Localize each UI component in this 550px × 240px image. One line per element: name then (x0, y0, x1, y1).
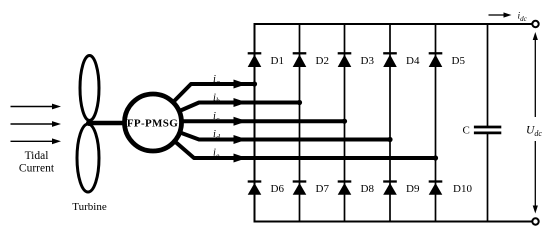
terminal positive (532, 21, 538, 27)
diode D5 (429, 53, 443, 67)
svg-text:Turbine: Turbine (72, 201, 107, 213)
svg-text:D4: D4 (406, 55, 420, 67)
arrowhead phase c (234, 117, 248, 126)
turbine hub (86, 120, 92, 126)
tidal current arrow 3 (11, 138, 62, 144)
diode D10 (429, 182, 443, 195)
diode D9 (383, 182, 397, 195)
arrowhead phase b (234, 98, 248, 107)
label Tidal Current (19, 150, 55, 175)
diode D6 (248, 182, 262, 195)
svg-text:D10: D10 (453, 183, 472, 195)
wire leg 1 (254, 24, 256, 222)
wire phase e (153, 123, 436, 159)
shaft (89, 121, 130, 126)
svg-text:Tidal: Tidal (25, 150, 49, 162)
svg-text:D7: D7 (316, 183, 330, 195)
svg-text:Current: Current (19, 163, 55, 175)
diode D8 (338, 182, 352, 195)
arrowhead phase d (234, 135, 248, 144)
tidal current arrow 2 (11, 121, 62, 127)
diode D7 (293, 182, 307, 195)
node phase d junction (387, 137, 392, 142)
svg-text:D2: D2 (316, 55, 329, 67)
wire phase a (153, 84, 255, 123)
svg-text:D5: D5 (452, 55, 466, 67)
node phase b junction (297, 100, 302, 105)
node phase e junction (433, 155, 438, 160)
wire bottom rail (254, 221, 536, 223)
arrowhead phase a (234, 80, 248, 89)
wire top rail (254, 23, 536, 25)
diode D4 (383, 53, 397, 67)
diode D3 (338, 53, 352, 67)
svg-text:D8: D8 (361, 183, 375, 195)
diode D2 (293, 53, 307, 67)
svg-text:D9: D9 (406, 183, 420, 195)
svg-text:FP-PMSG: FP-PMSG (127, 118, 178, 130)
arrow Udc lower (533, 141, 538, 214)
wire leg 4 (389, 24, 391, 222)
wire leg 2 (299, 24, 301, 222)
arrowhead phase e (234, 154, 248, 163)
wire leg 3 (344, 24, 346, 222)
generator FP-PMSG (125, 94, 182, 151)
node phase c junction (342, 119, 347, 124)
turbine blade lower (77, 124, 99, 192)
turbine blade upper (80, 56, 99, 121)
wire leg 5 (435, 24, 437, 222)
node phase a junction (252, 81, 257, 86)
diode D1 (248, 53, 262, 67)
wire phase d (153, 123, 390, 140)
wire phase c (153, 119, 345, 123)
capacitor C1 lead lower (487, 134, 489, 222)
arrow idc (489, 12, 512, 17)
svg-text:D1: D1 (271, 55, 284, 67)
terminal negative (532, 218, 538, 224)
capacitor C1 plates (474, 127, 501, 133)
tidal current arrow 1 (11, 104, 62, 110)
wire phase b (153, 103, 300, 123)
svg-text:C: C (463, 125, 470, 137)
capacitor C1 lead upper (487, 24, 489, 126)
arrow Udc upper (533, 32, 538, 117)
svg-text:D6: D6 (271, 183, 285, 195)
svg-text:D3: D3 (361, 55, 375, 67)
